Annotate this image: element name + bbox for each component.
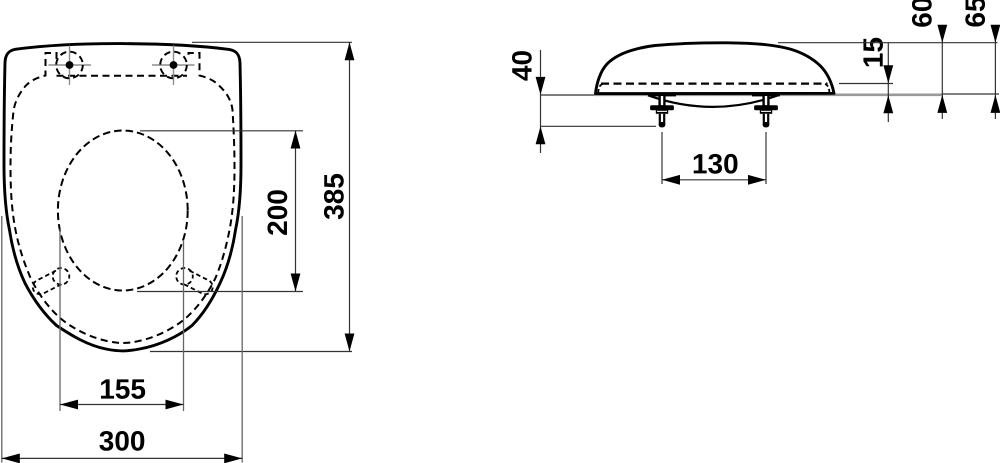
dimension 155: extension lines: [60, 229, 184, 411]
seat inner dashed contour with hinge plates: [11, 53, 235, 343]
bumper left: [30, 268, 69, 297]
dimension 60: label: [912, 0, 932, 27]
inner seat opening (dashed oval): [58, 131, 188, 291]
dimension 385: label: [324, 174, 344, 219]
seat profile dashed line: [601, 82, 828, 84]
top reference line 60/65: [778, 42, 998, 44]
dimension 300: arrows: [2, 454, 20, 463]
underside arc: [648, 95, 778, 107]
dimension 65: arrows: [991, 25, 1000, 43]
dimension 155: dim line: [60, 404, 184, 406]
hinge hole left: center dot: [66, 61, 74, 69]
hinge hole left: dashed circle: [56, 52, 83, 79]
dimension 130: label: [694, 154, 738, 174]
dimension 60: line: [941, 27, 943, 119]
dimension 300: label: [99, 431, 144, 451]
dimension 65: label: [965, 0, 985, 27]
hinge hole left: crosshair: [49, 46, 92, 86]
dimension 155: arrows: [60, 400, 78, 410]
dashed line right hook: [825, 84, 829, 92]
hinge hole right: crosshair: [152, 46, 195, 86]
dimension 40: arrows: [536, 77, 546, 95]
dimension 155: label: [101, 379, 145, 399]
hinge hole right: center dot: [170, 61, 178, 69]
dimension 15: lines: [839, 43, 893, 122]
seat profile: [596, 43, 835, 94]
hinge hole right: dashed circle: [160, 52, 187, 79]
dimension 130: lines: [662, 132, 766, 184]
dimension 130: arrows: [662, 175, 680, 185]
dimension 200: extension lines: [137, 131, 303, 292]
bumper right: [176, 268, 215, 297]
dimension 200: arrows: [291, 131, 301, 149]
dashed line between hinge plates: [57, 75, 188, 77]
dimension 385: arrows: [345, 42, 355, 60]
mounting line right thin segment: [942, 93, 1000, 95]
dimension 60: arrows: [937, 25, 947, 43]
dashed line left hook: [598, 84, 602, 92]
dimension 40: label: [512, 51, 532, 81]
dimension 385: extension lines: [150, 42, 352, 351]
bolt right: [752, 93, 780, 127]
mounting surface line (gray): [594, 94, 942, 97]
seat outer outline: [4, 44, 241, 351]
dimension 40: lines: [541, 50, 657, 153]
dimension 15: arrows: [883, 65, 893, 83]
bolt left: [648, 93, 676, 127]
dimension 65: line: [994, 27, 996, 119]
dimension 300: dim line: [2, 457, 242, 459]
dimension 300: extension lines: [2, 216, 242, 463]
dimension 200: label: [267, 190, 287, 235]
dimension 15: label: [863, 38, 883, 67]
